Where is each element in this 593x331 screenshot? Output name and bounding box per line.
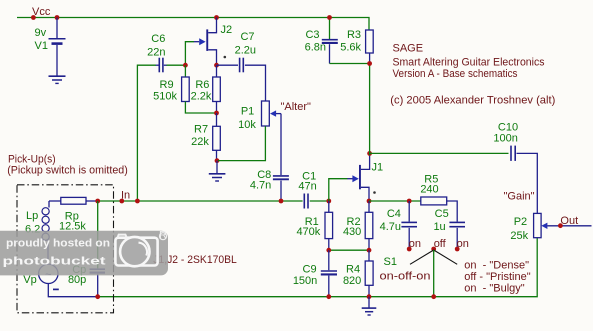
label Alter bbox=[281, 101, 312, 113]
svg-text:P1: P1 bbox=[241, 106, 254, 118]
svg-text:2.2u: 2.2u bbox=[235, 44, 256, 56]
junction R6/R7 bbox=[214, 111, 219, 116]
wire P1 wiper down to C8 bbox=[280, 114, 282, 175]
resistor R4 820 bbox=[343, 250, 373, 297]
svg-text:Vp: Vp bbox=[23, 274, 36, 286]
svg-text:1u: 1u bbox=[433, 221, 445, 233]
capacitor C8 4.7n bbox=[250, 169, 289, 201]
svg-text:C6: C6 bbox=[151, 33, 165, 45]
transistor J2 bbox=[194, 18, 233, 66]
capacitor Cp 80p bbox=[68, 201, 105, 297]
svg-text:photobucket: photobucket bbox=[3, 255, 107, 267]
junction R3 bottom bbox=[367, 61, 372, 66]
svg-text:12.5k: 12.5k bbox=[59, 220, 86, 232]
junction R2/R4 bbox=[367, 248, 372, 253]
svg-text:R: R bbox=[159, 230, 167, 242]
svg-text:C4: C4 bbox=[387, 208, 401, 220]
label Gain bbox=[504, 190, 535, 202]
svg-text:(Pickup switch is omitted): (Pickup switch is omitted) bbox=[7, 165, 128, 177]
wire R9 bottom jog bbox=[185, 102, 216, 114]
capacitor C4 4.7u bbox=[380, 201, 417, 249]
svg-text:"Alter": "Alter" bbox=[281, 101, 312, 113]
svg-text:V1: V1 bbox=[35, 40, 48, 52]
svg-text:820: 820 bbox=[343, 275, 361, 287]
resistor R3 5.6k bbox=[340, 29, 373, 64]
wire J1 gate bbox=[329, 179, 348, 201]
wire R3 bottom to J1 drain bbox=[369, 64, 371, 156]
wire C7 right to P1 top bbox=[245, 65, 266, 101]
svg-text:Out: Out bbox=[560, 215, 578, 227]
wire R1-R2 bottom row bbox=[329, 249, 369, 251]
node Out bbox=[558, 215, 578, 228]
svg-text:J2: J2 bbox=[221, 24, 233, 36]
svg-text:J1: J1 bbox=[372, 162, 384, 174]
svg-text:S1: S1 bbox=[384, 256, 397, 268]
svg-text:10k: 10k bbox=[238, 119, 256, 131]
switch S1 contacts on off on bbox=[407, 238, 469, 252]
svg-text:proudly hosted on: proudly hosted on bbox=[6, 238, 110, 250]
svg-text:R9: R9 bbox=[160, 79, 174, 91]
svg-text:Version A - Base schematics: Version A - Base schematics bbox=[393, 68, 518, 80]
svg-text:22k: 22k bbox=[191, 136, 209, 148]
svg-text:C7: C7 bbox=[240, 31, 254, 43]
resistor R9 510k bbox=[153, 65, 189, 102]
pickup dashed box bbox=[17, 185, 114, 313]
junction C1/R1/J1 gate bbox=[326, 199, 331, 204]
resistor R1 470k bbox=[296, 201, 332, 250]
label Pick-Ups bbox=[7, 154, 128, 177]
capacitor C6 22n bbox=[147, 33, 167, 73]
svg-text:22n: 22n bbox=[147, 46, 165, 58]
watermark overlay bbox=[0, 230, 168, 276]
svg-text:R6: R6 bbox=[195, 79, 209, 91]
wire S1 common to bottom rail bbox=[433, 250, 435, 297]
svg-text:240: 240 bbox=[420, 184, 438, 196]
svg-text:47n: 47n bbox=[298, 180, 316, 192]
resistor R5 240 bbox=[420, 173, 446, 205]
capacitor C10 100n bbox=[493, 122, 518, 161]
wire Vcc rail bbox=[17, 18, 369, 31]
junction Cp bottom bbox=[95, 294, 100, 299]
junction R1/C9 bbox=[326, 248, 331, 253]
svg-text:Lp: Lp bbox=[26, 210, 38, 222]
svg-text:on - "Bulgy": on - "Bulgy" bbox=[464, 283, 524, 295]
capacitor C3 6.8n bbox=[305, 18, 338, 64]
svg-text:"Gain": "Gain" bbox=[504, 190, 535, 202]
wire C3 bottom to R3 bottom bbox=[330, 63, 370, 65]
wire J1 source to R5 bbox=[369, 200, 421, 202]
inductor Lp 6.2 bbox=[25, 201, 49, 240]
node In bbox=[119, 189, 130, 203]
junction Rp/Cp bbox=[95, 199, 100, 204]
transistor J1 bbox=[347, 155, 383, 201]
junction C4 tap bbox=[407, 199, 412, 204]
junction C3 top bbox=[327, 15, 332, 20]
battery V1 9v bbox=[35, 18, 66, 76]
wire Vp bottom to rail bbox=[48, 284, 97, 297]
junction C6/R9/gate bbox=[183, 63, 188, 68]
title block SAGE bbox=[390, 42, 555, 106]
svg-text:on-off-on: on-off-on bbox=[380, 271, 431, 283]
junction battery top bbox=[55, 15, 60, 20]
capacitor C1 47n bbox=[298, 171, 316, 209]
junction C9 bottom bbox=[326, 294, 331, 299]
svg-text:Smart Altering Guitar Electron: Smart Altering Guitar Electronics bbox=[393, 56, 545, 68]
resistor Rp 12.5k bbox=[49, 197, 86, 232]
svg-text:C9: C9 bbox=[303, 264, 317, 276]
capacitor C5 1u bbox=[433, 208, 465, 249]
svg-text:4.7n: 4.7n bbox=[250, 180, 271, 192]
wire C6 left to In node bbox=[137, 65, 155, 201]
label J1 J2 part number bbox=[153, 254, 237, 266]
junction C6-drop on In line bbox=[135, 199, 140, 204]
svg-text:2.2k: 2.2k bbox=[191, 90, 212, 102]
svg-text:off - "Pristine": off - "Pristine" bbox=[464, 271, 530, 283]
svg-text:5.6k: 5.6k bbox=[340, 42, 361, 54]
wire P2 wiper Out bbox=[547, 225, 591, 227]
svg-text:C3: C3 bbox=[305, 29, 319, 41]
potentiometer P1 10k bbox=[238, 101, 281, 131]
switch S1 levers bbox=[380, 250, 458, 283]
svg-text:150n: 150n bbox=[293, 275, 317, 287]
capacitor C7 2.2u bbox=[217, 31, 257, 72]
junction J1 source bbox=[367, 199, 372, 204]
wire C6 right to junction bbox=[167, 64, 186, 66]
capacitor C9 150n bbox=[293, 250, 337, 297]
ground (R7/P1 node) bbox=[209, 161, 226, 181]
svg-text:510k: 510k bbox=[153, 90, 177, 102]
wire J2 gate riser bbox=[185, 42, 193, 65]
svg-text:4.7u: 4.7u bbox=[380, 221, 401, 233]
svg-text:6.8n: 6.8n bbox=[305, 42, 326, 54]
wire R5 right to C5 top bbox=[447, 201, 458, 222]
svg-text:R7: R7 bbox=[194, 124, 208, 136]
svg-text:SAGE: SAGE bbox=[393, 42, 424, 54]
junction R7/P1 ground node bbox=[215, 158, 220, 163]
junction S1 bottom bbox=[431, 294, 436, 299]
wire bottom rail bbox=[98, 238, 538, 297]
junction C10 tap on drain bbox=[367, 151, 372, 156]
svg-text:on - "Dense": on - "Dense" bbox=[464, 259, 529, 271]
source Vp bbox=[23, 264, 59, 289]
potentiometer P2 25k bbox=[510, 213, 547, 242]
svg-text:R3: R3 bbox=[347, 29, 361, 41]
svg-text:470k: 470k bbox=[296, 226, 320, 238]
svg-text:25k: 25k bbox=[510, 230, 528, 242]
wire Lp bottom to Vp bbox=[47, 240, 49, 264]
wire P1 bottom to ground node bbox=[218, 126, 265, 160]
node Vcc bbox=[31, 6, 51, 20]
wire J2 source to junction bbox=[214, 63, 219, 68]
svg-text:R4: R4 bbox=[346, 264, 360, 276]
svg-text:100n: 100n bbox=[493, 132, 517, 144]
wire In line bbox=[86, 200, 329, 202]
junction R4 bottom bbox=[367, 294, 372, 299]
svg-text:430: 430 bbox=[343, 226, 361, 238]
svg-text:P2: P2 bbox=[514, 216, 527, 228]
svg-text:9v: 9v bbox=[35, 27, 47, 39]
wire C10 right to P2 top bbox=[517, 153, 538, 213]
resistor R6 2.2k bbox=[191, 65, 221, 113]
switch position legend bbox=[464, 259, 530, 294]
wire J1 drain tap to C10 bbox=[370, 152, 509, 154]
svg-text:80p: 80p bbox=[68, 274, 86, 286]
ground (under R4) bbox=[362, 297, 377, 315]
svg-text:(c) 2005 Alexander Troshnev (a: (c) 2005 Alexander Troshnev (alt) bbox=[390, 94, 555, 106]
junction J2 drain at Vcc bbox=[214, 15, 219, 20]
resistor R7 22k bbox=[191, 113, 220, 161]
resistor R2 430 bbox=[343, 201, 373, 250]
svg-text:C5: C5 bbox=[435, 208, 449, 220]
ground (battery) bbox=[49, 76, 66, 83]
junction C8 on In line bbox=[279, 199, 284, 204]
